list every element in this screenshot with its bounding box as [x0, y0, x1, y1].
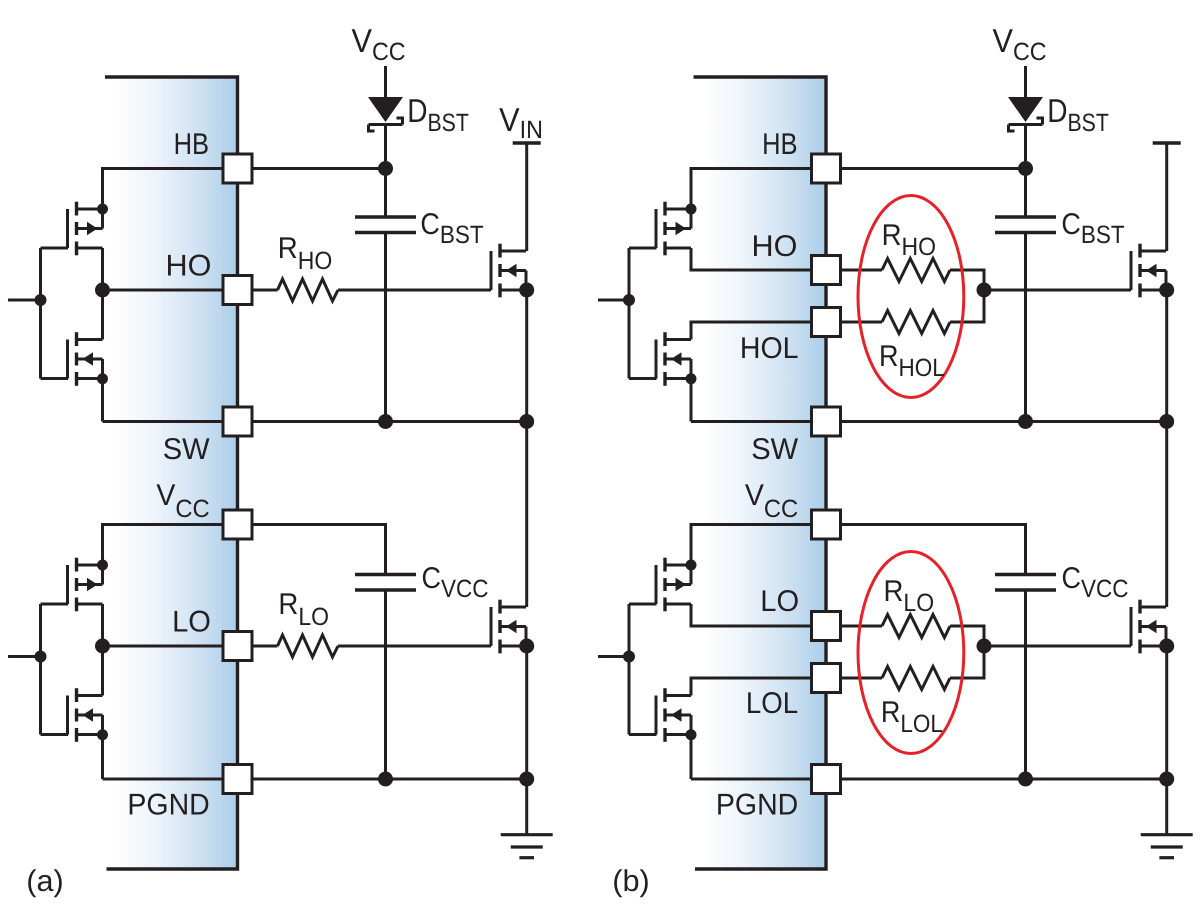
- wire RLO to join (b): [950, 625, 984, 628]
- wire CVCC to PGND (a): [384, 590, 387, 779]
- wire SW to low-side drain (b): [1165, 422, 1168, 608]
- wire VCC pin to CVCC (a): [251, 523, 386, 526]
- wire PGND driver to pin (a): [103, 778, 225, 781]
- svg-text:LO: LO: [172, 605, 211, 638]
- terminal VIN bar (b): [1153, 141, 1181, 144]
- wire HO node to pin (a): [103, 289, 225, 292]
- wire SW driver to pin (b): [691, 420, 812, 423]
- transistor Q7 PMOS driver (b top): [656, 202, 691, 256]
- transistor Q5 NMOS driver (a bottom): [68, 688, 103, 742]
- wire low-side source to PGND (b): [1165, 646, 1168, 779]
- svg-text:VCC: VCC: [351, 22, 405, 66]
- wire RLO to gate (a): [338, 645, 491, 648]
- svg-text:CBST: CBST: [420, 208, 483, 249]
- wire PMOS source to HO pin (b): [691, 248, 812, 270]
- wire gate bus vertical (b top): [628, 248, 631, 379]
- wire HB pin to driver (b): [691, 167, 812, 170]
- node CBST-SW junction (b): [1018, 414, 1033, 429]
- wire driver supply vertical (a top): [101, 167, 104, 209]
- svg-text:CVCC: CVCC: [1061, 562, 1128, 603]
- wire HB pin to bootstrap node (a): [251, 167, 386, 170]
- node CVCC-PGND junction (b): [1018, 772, 1033, 787]
- svg-text:VCC: VCC: [992, 22, 1046, 66]
- svg-text:LOL: LOL: [746, 687, 798, 720]
- transistor Q10 PMOS driver (b bottom): [656, 558, 691, 612]
- wire gate bus vertical (b bottom): [628, 604, 631, 735]
- wire high-side source to SW (b): [1165, 290, 1168, 422]
- pin HO (b): [812, 256, 841, 285]
- node high-side source dot (b): [1159, 283, 1174, 298]
- node input junction (b top): [623, 294, 635, 306]
- transistor Q9 high-side NMOS (b): [1131, 244, 1166, 298]
- wire input stub (b bottom): [598, 655, 629, 658]
- svg-text:LO: LO: [760, 585, 799, 618]
- svg-text:RLO: RLO: [883, 575, 934, 617]
- terminal VIN bar (a): [513, 141, 541, 144]
- wire driver supply vertical (b bottom): [690, 523, 693, 565]
- svg-text:PGND: PGND: [716, 788, 798, 821]
- wire SW to low-side drain (a): [525, 422, 528, 608]
- wire NMOS drain to HOL pin (b): [691, 322, 812, 340]
- pin SW (a): [223, 407, 252, 436]
- wire CBST to SW (b): [1024, 233, 1027, 422]
- node NMOS body-source dot (a top): [97, 373, 108, 384]
- wire gate bus vertical (a bottom): [39, 604, 42, 735]
- node low-side source dot (a): [519, 639, 534, 654]
- resistor RHOL (b): [840, 321, 883, 324]
- resistor RHO (a): [251, 289, 278, 292]
- wire diode to HB node (b): [1024, 124, 1027, 169]
- transistor Q8 NMOS driver (b top): [656, 332, 691, 386]
- wire gate lead NMOS (a bottom): [41, 733, 69, 736]
- wire CVCC to PGND (b): [1024, 590, 1027, 779]
- capacitor CVCC (b): [995, 575, 1056, 591]
- node HB bootstrap junction (b): [1018, 161, 1033, 176]
- pin LO (a): [223, 632, 252, 661]
- transistor Q3 high-side NMOS (a): [491, 244, 526, 298]
- IC gate-driver body (b): [694, 77, 827, 869]
- wire join to gate (b bottom): [984, 645, 1131, 648]
- pin HB (b): [812, 154, 841, 183]
- transistor Q11 NMOS driver (b bottom): [656, 688, 691, 742]
- red highlight ellipse (b top): [858, 196, 964, 398]
- svg-text:CBST: CBST: [1061, 208, 1124, 249]
- node resistor join (b top): [977, 283, 992, 298]
- wire PMOS source to LO pin (b): [691, 604, 812, 626]
- wire gate lead NMOS (b top): [629, 377, 657, 380]
- wire LO node to pin (a): [103, 645, 225, 648]
- svg-text:SW: SW: [751, 433, 799, 466]
- wire VIN to drain (b): [1165, 143, 1168, 251]
- wire input stub (b top): [598, 299, 629, 302]
- capacitor CBST (b): [995, 217, 1056, 233]
- wire NMOS drain vertical (a bottom): [101, 646, 104, 696]
- node PGND-source junction (a): [519, 772, 534, 787]
- wire join to gate (b top): [984, 289, 1131, 292]
- wire resistor join vertical (b bottom): [983, 625, 986, 680]
- wire driver supply vertical (b top): [690, 167, 693, 209]
- pin VCC (b): [812, 510, 841, 539]
- node CBST-SW junction (a): [378, 414, 393, 429]
- wire SW rail (a): [251, 420, 527, 423]
- red highlight ellipse (b bottom): [858, 552, 964, 754]
- resistor RLO (b): [840, 625, 883, 628]
- pin PGND (a): [223, 765, 252, 794]
- wire gate bus vertical (a top): [39, 248, 42, 379]
- wire RHOL to join (b): [950, 321, 984, 324]
- svg-text:RLO: RLO: [278, 588, 329, 631]
- node NMOS body-source dot (b top): [686, 373, 697, 384]
- node input junction (b bottom): [623, 651, 635, 663]
- ground symbol (a): [501, 835, 553, 858]
- node low-side source dot (b): [1159, 639, 1174, 654]
- wire NMOS drain vertical (a top): [101, 290, 104, 340]
- wire VCC pin to driver (b): [691, 523, 812, 526]
- wire low-side source to PGND (a): [525, 646, 528, 779]
- svg-text:RHOL: RHOL: [879, 340, 945, 382]
- pin LO (b): [812, 612, 841, 641]
- svg-text:PGND: PGND: [127, 788, 209, 821]
- transistor Q2 NMOS driver (a top): [68, 332, 103, 386]
- wire PMOS source to LO node (a): [101, 604, 104, 646]
- wire RHO to join (b): [950, 269, 984, 272]
- svg-text:HB: HB: [174, 128, 209, 161]
- diode DBST schottky (b): [1008, 97, 1043, 131]
- node SW-source junction (a): [519, 414, 534, 429]
- wire gate lead PMOS (a bottom): [41, 603, 69, 606]
- node input junction (a bottom): [35, 651, 47, 663]
- wire VCC rail down to CVCC (a): [384, 523, 387, 575]
- node HB bootstrap junction (a): [378, 161, 393, 176]
- pin VCC (a): [223, 510, 252, 539]
- pin HB (a): [223, 154, 252, 183]
- resistor RLOL (b): [840, 677, 883, 680]
- svg-text:HO: HO: [166, 250, 212, 283]
- wire VCC to diode (b): [1024, 66, 1027, 98]
- pin HOL (b): [812, 308, 841, 337]
- svg-text:VIN: VIN: [499, 101, 543, 144]
- capacitor CBST (a): [355, 217, 416, 233]
- wire RLOL to join (b): [950, 677, 984, 680]
- svg-text:HOL: HOL: [740, 332, 799, 365]
- wire gate lead NMOS (a top): [41, 377, 69, 380]
- wire PMOS source to HO node (a): [101, 248, 104, 290]
- wire NMOS source to PGND (b): [690, 735, 693, 780]
- svg-text:(a): (a): [26, 865, 63, 898]
- wire HB pin to bootstrap node (b): [840, 167, 1026, 170]
- node driver drain dot (a top): [97, 204, 108, 215]
- pin SW (b): [812, 407, 841, 436]
- capacitor CVCC (a): [355, 575, 416, 591]
- svg-text:HO: HO: [752, 230, 798, 263]
- node resistor join (b bottom): [977, 639, 992, 654]
- wire SW rail (b): [840, 420, 1167, 423]
- wire PGND rail (b): [840, 778, 1167, 781]
- wire PGND to ground (b): [1165, 779, 1168, 835]
- wire NMOS source to SW (b): [690, 379, 693, 422]
- wire HB node to CBST (a): [384, 169, 387, 218]
- wire CBST to SW (a): [384, 233, 387, 422]
- node PGND-source junction (b): [1159, 772, 1174, 787]
- node input junction (a top): [35, 294, 47, 306]
- wire VCC to diode (a): [384, 66, 387, 98]
- svg-text:(b): (b): [612, 865, 649, 898]
- node NMOS body-source dot (a bottom): [97, 729, 108, 740]
- wire VCC rail down to CVCC (b): [1024, 523, 1027, 575]
- pin HO (a): [223, 276, 252, 305]
- wire driver supply vertical (a bottom): [101, 523, 104, 565]
- node driver drain dot (b top): [686, 204, 697, 215]
- wire gate lead PMOS (b top): [629, 247, 657, 250]
- wire VIN to drain (a): [525, 143, 528, 251]
- IC gate-driver body (a): [105, 77, 238, 869]
- transistor Q4 PMOS driver (a bottom): [68, 558, 103, 612]
- transistor Q12 low-side NMOS (b): [1131, 600, 1166, 654]
- pin LOL (b): [812, 664, 841, 693]
- wire VCC pin to driver (a): [103, 523, 225, 526]
- transistor Q6 low-side NMOS (a): [491, 600, 526, 654]
- wire HB node to CBST (b): [1024, 169, 1027, 218]
- wire gate lead NMOS (b bottom): [629, 733, 657, 736]
- wire input stub (a top): [8, 299, 41, 302]
- svg-text:RLOL: RLOL: [881, 696, 943, 738]
- svg-text:RHO: RHO: [278, 232, 332, 275]
- node high-side source dot (a): [519, 283, 534, 298]
- svg-text:SW: SW: [163, 433, 211, 466]
- diode DBST schottky (a): [368, 97, 403, 131]
- wire PGND rail (a): [251, 778, 527, 781]
- ground symbol (b): [1141, 835, 1193, 858]
- wire diode to HB node (a): [384, 124, 387, 169]
- wire NMOS drain to LOL pin (b): [691, 678, 812, 696]
- wire gate lead PMOS (b bottom): [629, 603, 657, 606]
- resistor RHO (b): [840, 269, 883, 272]
- wire resistor join vertical (b top): [983, 269, 986, 324]
- wire high-side source to SW (a): [525, 290, 528, 422]
- wire VCC pin to CVCC (b): [840, 523, 1026, 526]
- node driver drain dot (a bottom): [97, 560, 108, 571]
- wire PGND to ground (a): [525, 779, 528, 835]
- wire input stub (a bottom): [8, 655, 41, 658]
- svg-text:RHO: RHO: [882, 219, 936, 261]
- wire NMOS source to SW (a): [101, 379, 104, 422]
- svg-text:DBST: DBST: [1047, 92, 1109, 137]
- resistor RLO (a): [251, 645, 278, 648]
- wire HB pin to driver (a): [103, 167, 225, 170]
- pin PGND (b): [812, 765, 841, 794]
- wire RHO to gate (a): [338, 289, 491, 292]
- svg-text:DBST: DBST: [407, 92, 469, 137]
- node NMOS body-source dot (b bottom): [686, 729, 697, 740]
- svg-text:HB: HB: [762, 128, 797, 161]
- wire SW driver to pin (a): [103, 420, 225, 423]
- svg-text:CVCC: CVCC: [421, 562, 488, 603]
- wire gate lead PMOS (a top): [41, 247, 69, 250]
- node CVCC-PGND junction (a): [378, 772, 393, 787]
- node HO (a): [95, 283, 110, 298]
- transistor Q1 PMOS driver (a top): [68, 202, 103, 256]
- node driver drain dot (b bottom): [686, 560, 697, 571]
- wire NMOS source to PGND (a): [101, 735, 104, 780]
- node LO (a): [95, 639, 110, 654]
- wire PGND driver to pin (b): [691, 778, 812, 781]
- node SW-source junction (b): [1159, 414, 1174, 429]
